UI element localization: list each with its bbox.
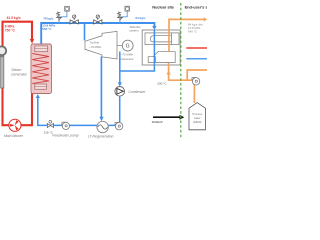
- turbine exhaust line (wire): [100, 57, 102, 118]
- turbine inlet branch (wire): [84, 23, 86, 41]
- condenser outlet (wire): [119, 96, 121, 122]
- reboiler HX shell (top vessel): [145, 33, 179, 45]
- svg-text:565 °C: 565 °C: [42, 27, 52, 31]
- relief discharge pot 1: [65, 6, 70, 11]
- svg-text:Feedwater pump: Feedwater pump: [52, 134, 78, 138]
- steam feed arrowhead into reboiler box: [152, 26, 156, 30]
- end user heat line (red wire): [186, 47, 207, 49]
- feedwater valve: [47, 120, 53, 127]
- main blower: [9, 119, 21, 131]
- control valve 1: [70, 15, 78, 24]
- site boundary (green dashed): [180, 3, 182, 139]
- reboiler system box: [142, 30, 180, 65]
- feedwater pump: [62, 122, 70, 129]
- end user steam line (blue wire): [186, 58, 207, 60]
- safety valve assembly 2: [119, 19, 121, 23]
- svg-text:MAKEUP: MAKEUP: [152, 120, 163, 124]
- tube bundle: [150, 36, 171, 42]
- generator shaft: [117, 45, 122, 47]
- svg-text:61.5 kg/s: 61.5 kg/s: [7, 16, 21, 20]
- svg-text:G: G: [126, 44, 130, 50]
- condensate pump: [115, 122, 123, 130]
- svg-text:64 kg/s: 64 kg/s: [135, 16, 146, 20]
- svg-text:Generator: Generator: [11, 73, 28, 77]
- bottom feedwater line (wire): [38, 98, 119, 126]
- steam generator bottom header: [35, 84, 47, 89]
- control valve 2: [94, 15, 102, 24]
- arrowhead into condenser: [118, 82, 122, 86]
- svg-text:200 °C: 200 °C: [157, 82, 167, 86]
- svg-text:Main blower: Main blower: [4, 134, 24, 138]
- svg-text:Process: Process: [192, 112, 202, 116]
- district heat supply (orange wire): [169, 19, 205, 51]
- district heat pump: [192, 77, 200, 85]
- svg-text:LT-Regeneration: LT-Regeneration: [88, 135, 114, 139]
- svg-text:76 kg/s: 76 kg/s: [43, 16, 54, 20]
- svg-text:Generator: Generator: [121, 57, 135, 61]
- arrowhead into LT-Regeneration: [99, 117, 103, 121]
- svg-text:750 °C: 750 °C: [5, 29, 16, 33]
- primary hot gas loop (red wire): [3, 22, 33, 126]
- orange arrowhead up into reboiler: [167, 70, 171, 74]
- condenser: [115, 87, 125, 97]
- svg-text:~73 MWe: ~73 MWe: [89, 45, 102, 49]
- svg-text:Steam: Steam: [11, 68, 21, 72]
- orange arrowhead to end user: [204, 17, 207, 21]
- svg-text:540 °C: 540 °C: [188, 29, 197, 33]
- red arrowhead into steam generator: [30, 39, 34, 44]
- main steam line (blue wire): [41, 23, 154, 44]
- turbine: [85, 31, 117, 59]
- LT-Regeneration heat exchanger: [97, 121, 108, 132]
- steam generator photo: [0, 46, 6, 88]
- svg-text:End-user's site: End-user's site: [185, 4, 207, 9]
- helical coil: [32, 54, 49, 84]
- safety valve assembly 1: [58, 19, 60, 23]
- relief discharge pot 2: [125, 6, 130, 11]
- process water DEMI tank: [189, 103, 205, 130]
- svg-text:system: system: [129, 29, 139, 33]
- svg-text:water: water: [194, 116, 201, 120]
- steam generator top header: [35, 46, 48, 52]
- generator G: [122, 40, 133, 51]
- district heat return from end user (orange wire): [187, 70, 207, 80]
- svg-text:Nuclear site: Nuclear site: [152, 4, 175, 9]
- steam generator vessel: [31, 44, 52, 94]
- kettle reboiler (bottom vessel): [148, 52, 175, 63]
- condenser feed line (wire): [119, 52, 121, 84]
- district heat return riser (orange wire): [169, 63, 195, 103]
- arrowhead into steam generator: [36, 94, 40, 98]
- makeup arrow: [153, 116, 180, 118]
- svg-text:Condenser: Condenser: [128, 90, 146, 94]
- svg-text:(DEMI): (DEMI): [193, 120, 202, 124]
- condensate line through box (wire): [120, 30, 155, 71]
